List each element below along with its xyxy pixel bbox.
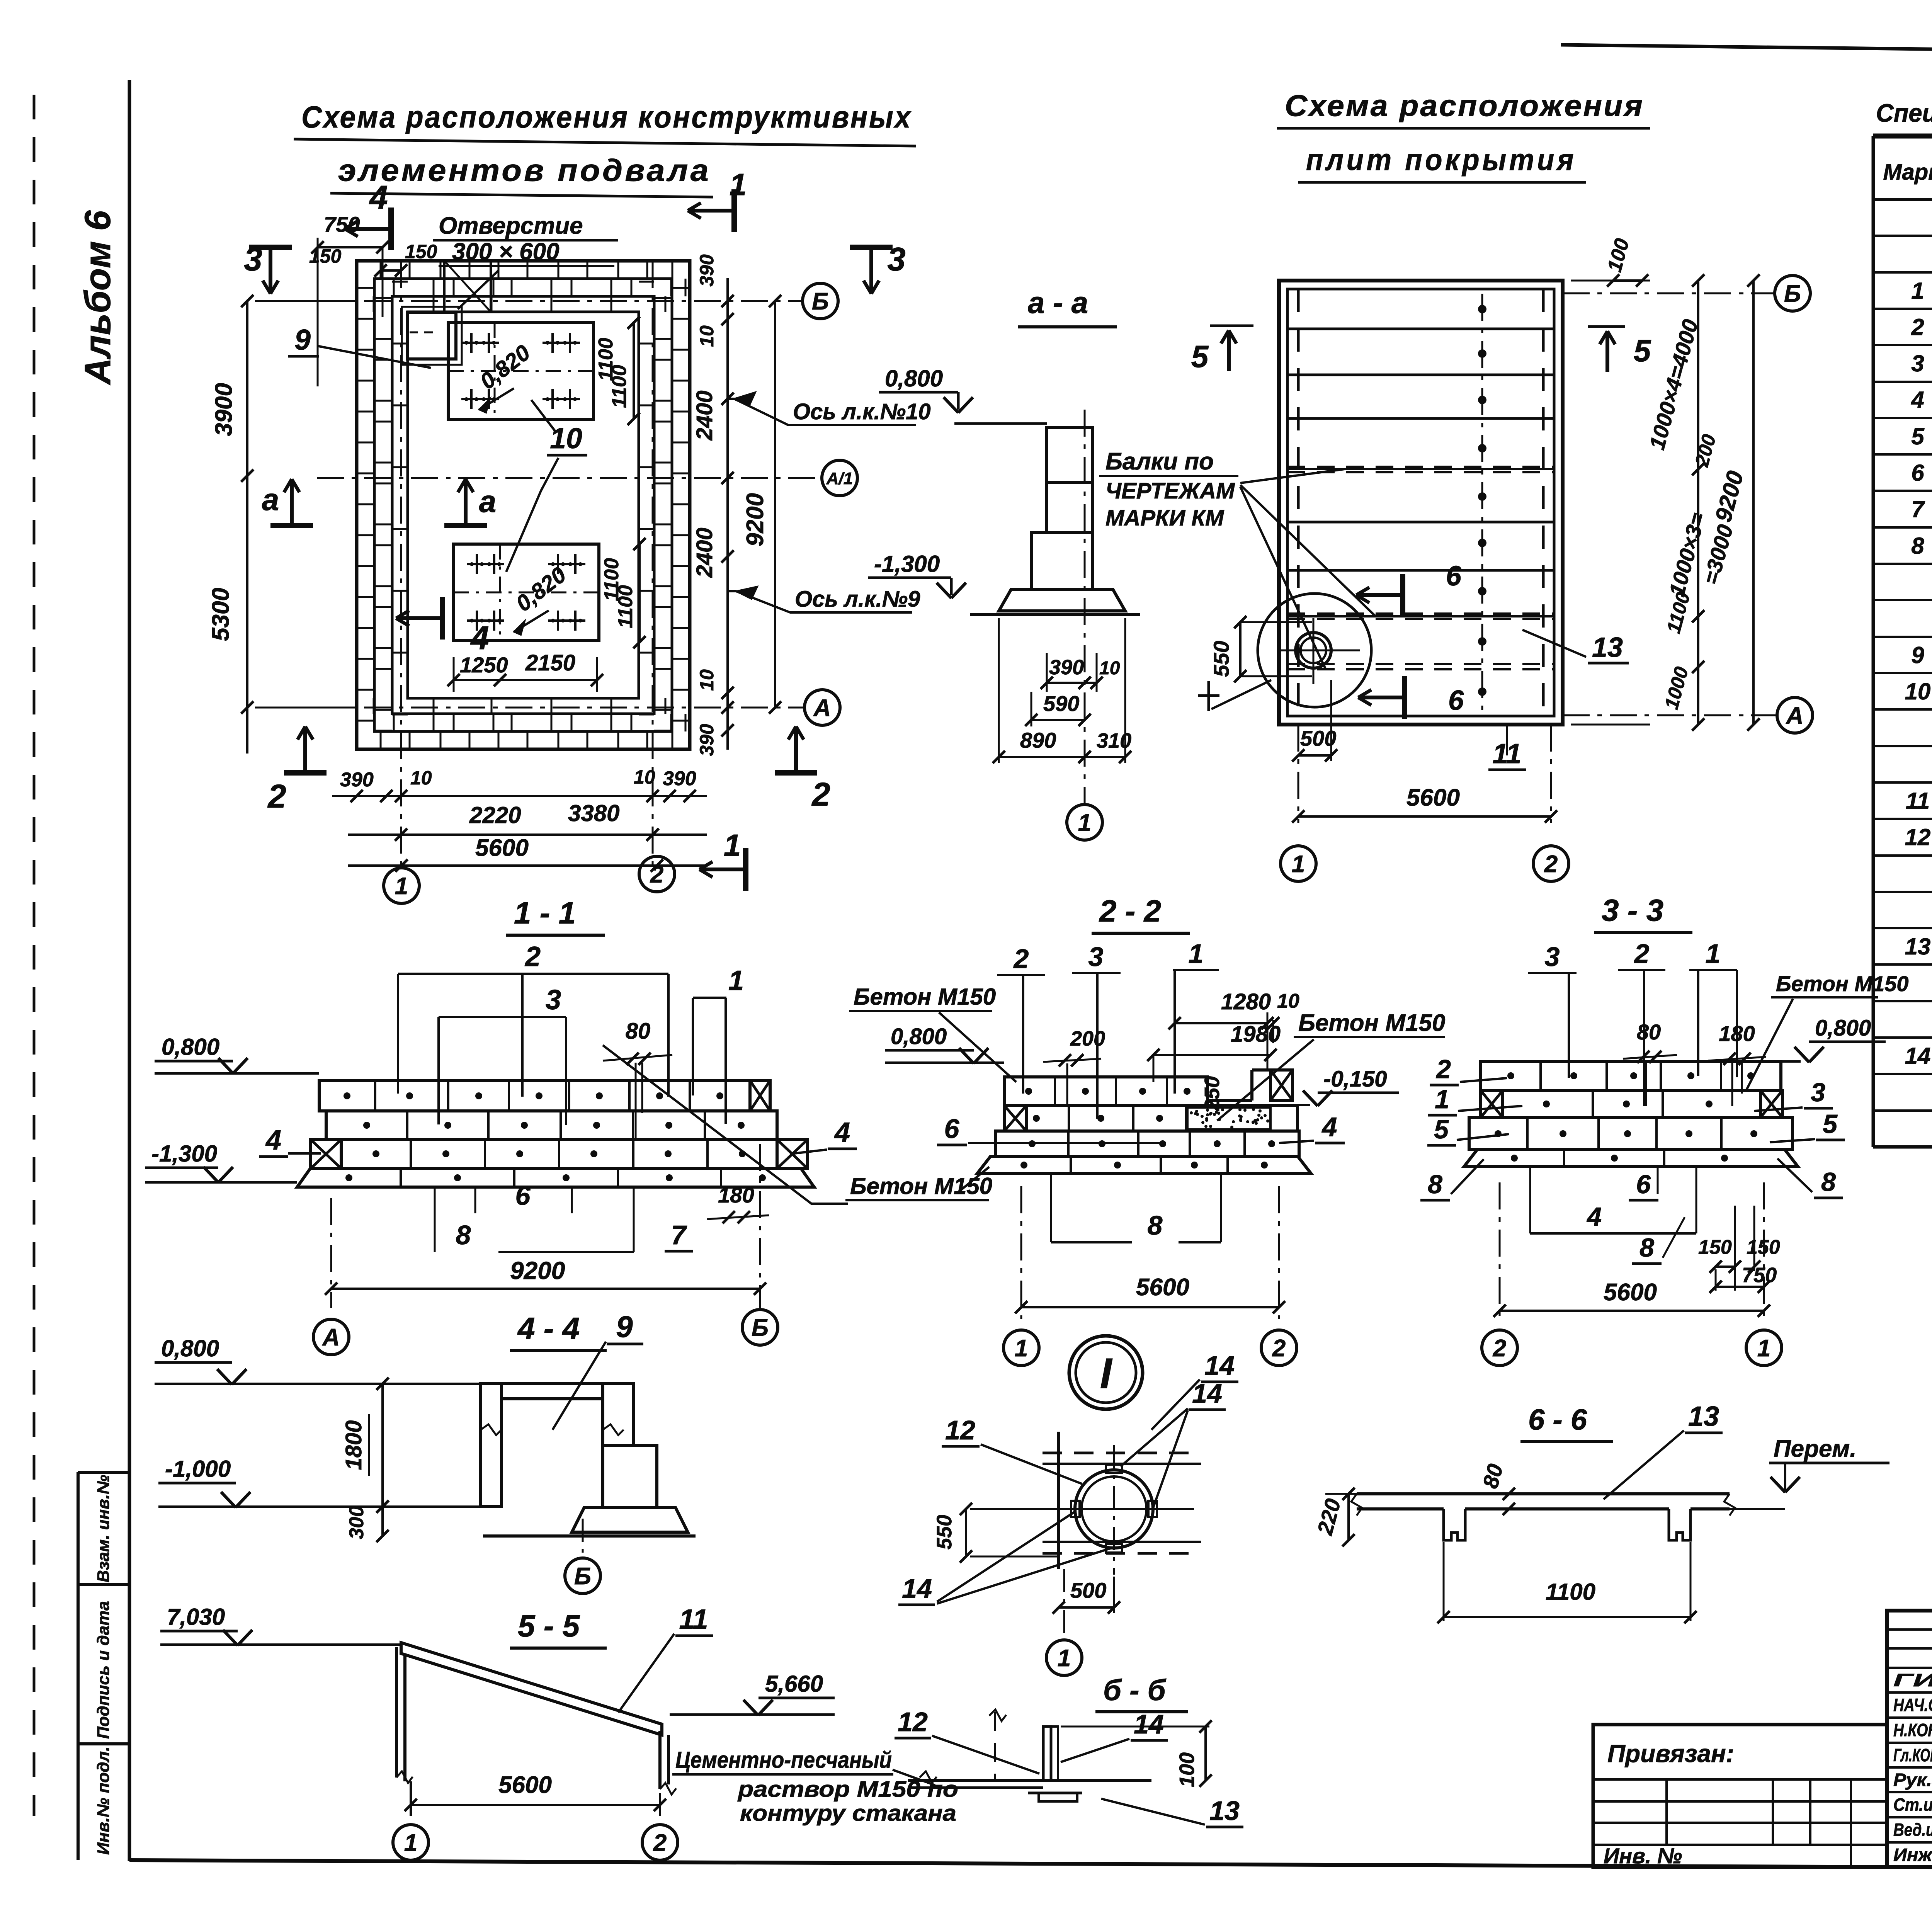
svg-text:-1,000: -1,000 — [165, 1456, 231, 1482]
svg-text:НАЧ.ОТД: НАЧ.ОТД — [1893, 1695, 1932, 1715]
svg-text:Н.КОНТР.: Н.КОНТР. — [1893, 1720, 1932, 1740]
1-1 crossed end top right — [750, 1080, 770, 1111]
3-3 slab — [1464, 1150, 1798, 1167]
svg-text:Альбом 6: Альбом 6 — [77, 210, 118, 385]
svg-text:220: 220 — [1312, 1496, 1345, 1538]
svg-text:0,800: 0,800 — [885, 366, 943, 391]
plan axes dash-dot — [317, 300, 802, 302]
svg-text:1: 1 — [395, 873, 408, 900]
svg-text:1: 1 — [1189, 939, 1204, 969]
2-2 dim 5600 — [1020, 1186, 1022, 1319]
svg-text:0,800: 0,800 — [161, 1335, 219, 1361]
svg-text:Схема расположения конструктив: Схема расположения конструктивных — [301, 100, 912, 134]
svg-text:Ст.инж.: Ст.инж. — [1893, 1795, 1932, 1815]
svg-text:6: 6 — [1636, 1170, 1651, 1199]
plan right dims — [1571, 280, 1650, 282]
1-1 course 3 — [341, 1140, 777, 1169]
svg-text:5: 5 — [1434, 1115, 1449, 1144]
svg-text:3380: 3380 — [568, 800, 619, 826]
a-a dims — [1047, 682, 1085, 684]
svg-text:590: 590 — [1043, 691, 1079, 716]
svg-text:13: 13 — [1209, 1796, 1240, 1826]
svg-text:100: 100 — [1603, 236, 1633, 274]
svg-text:390: 390 — [663, 767, 696, 790]
uzel axis 1 — [1046, 1640, 1082, 1675]
uzel dim 550 — [965, 1509, 967, 1556]
svg-text:Бетон М150: Бетон М150 — [850, 1173, 992, 1199]
svg-text:1000×3=: 1000×3= — [1664, 510, 1710, 599]
svg-text:Спецификация ксхемам расположе: Спецификация ксхемам расположения констр… — [1876, 99, 1932, 127]
svg-text:550: 550 — [933, 1515, 956, 1550]
svg-text:Инжен.: Инжен. — [1893, 1845, 1932, 1865]
2-2 top course with pit recess — [1004, 1077, 1207, 1106]
svg-text:6: 6 — [1446, 561, 1462, 592]
svg-text:2: 2 — [267, 778, 286, 815]
svg-text:1: 1 — [1078, 810, 1091, 836]
plit plan outline — [1279, 281, 1563, 725]
svg-text:Балки по: Балки по — [1105, 448, 1214, 475]
2-2 slab — [977, 1157, 1311, 1174]
svg-text:4: 4 — [265, 1125, 281, 1156]
svg-text:5600: 5600 — [475, 835, 529, 861]
svg-text:Б: Б — [812, 288, 829, 315]
svg-text:200: 200 — [1690, 432, 1720, 469]
svg-text:МАРКИ КМ: МАРКИ КМ — [1105, 505, 1225, 531]
foundation plate 10 upper — [448, 323, 594, 419]
svg-text:3: 3 — [1088, 942, 1104, 972]
svg-text:4: 4 — [834, 1117, 850, 1148]
svg-text:390: 390 — [340, 769, 374, 791]
svg-text:-1,300: -1,300 — [874, 551, 940, 577]
2-2 concrete fill dotted — [1187, 1107, 1270, 1129]
svg-text:1: 1 — [724, 828, 741, 862]
svg-text:5600: 5600 — [1604, 1279, 1657, 1306]
4-4 break marks — [481, 1424, 502, 1435]
svg-text:Подпись и дата: Подпись и дата — [94, 1601, 113, 1739]
svg-text:-1,300: -1,300 — [151, 1141, 217, 1167]
wall block joints — [380, 261, 382, 279]
inner plate dims 1250 2150 — [453, 657, 455, 692]
svg-text:2150: 2150 — [525, 650, 575, 675]
svg-text:550: 550 — [1209, 641, 1233, 677]
4-4 axis B — [582, 1519, 584, 1557]
svg-text:1: 1 — [1292, 851, 1305, 878]
3-3 course 2 with crossed ends — [1503, 1090, 1760, 1118]
svg-text:150: 150 — [309, 245, 342, 267]
4-4 pit walls — [481, 1384, 502, 1507]
svg-text:14: 14 — [1905, 1043, 1931, 1069]
svg-text:390: 390 — [1049, 656, 1084, 679]
svg-text:2: 2 — [1493, 1335, 1506, 1362]
svg-text:14: 14 — [1204, 1351, 1235, 1381]
svg-text:ГИП: ГИП — [1893, 1670, 1932, 1690]
svg-text:5,660: 5,660 — [765, 1671, 823, 1697]
svg-text:а: а — [479, 484, 497, 519]
svg-text:0,820: 0,820 — [511, 562, 571, 617]
center dots column — [1481, 294, 1483, 715]
svg-text:12: 12 — [945, 1415, 975, 1445]
svg-text:6 - 6: 6 - 6 — [1528, 1403, 1587, 1436]
5-5 roof slab — [401, 1643, 662, 1735]
privyazan box — [1593, 1725, 1887, 1867]
a-a column — [1047, 428, 1092, 483]
plate 10 lower — [454, 544, 599, 641]
svg-text:10: 10 — [1099, 658, 1120, 679]
svg-text:2: 2 — [1911, 314, 1924, 340]
svg-text:2: 2 — [1013, 944, 1029, 974]
svg-text:5300: 5300 — [207, 588, 234, 641]
svg-text:3 - 3: 3 - 3 — [1602, 893, 1663, 927]
svg-text:7: 7 — [671, 1220, 687, 1250]
svg-text:А: А — [1786, 703, 1804, 729]
1-1 crossed ends course3 — [311, 1140, 341, 1169]
svg-text:2: 2 — [524, 941, 541, 972]
svg-text:2400: 2400 — [692, 527, 717, 578]
svg-text:390: 390 — [696, 254, 718, 287]
svg-text:плит покрытия: плит покрытия — [1306, 143, 1577, 177]
svg-text:2400: 2400 — [692, 390, 717, 441]
svg-text:1100: 1100 — [1663, 590, 1694, 636]
svg-text:6: 6 — [515, 1180, 531, 1211]
a-a axis circle 1 — [1067, 805, 1102, 840]
svg-text:2220: 2220 — [469, 802, 521, 828]
svg-text:1000: 1000 — [1660, 664, 1692, 711]
svg-text:3: 3 — [546, 985, 561, 1015]
svg-text:8: 8 — [1639, 1233, 1654, 1262]
svg-text:8: 8 — [1428, 1170, 1442, 1199]
svg-text:10: 10 — [696, 325, 718, 347]
svg-text:а - а: а - а — [1028, 286, 1088, 320]
svg-text:1000×4=4000: 1000×4=4000 — [1645, 317, 1702, 452]
svg-text:А: А — [813, 695, 831, 721]
svg-text:6: 6 — [1448, 685, 1464, 716]
svg-text:10: 10 — [696, 669, 718, 691]
svg-text:10: 10 — [410, 767, 432, 789]
2-2 crossed box left — [1004, 1106, 1026, 1131]
6-6 beam section — [1357, 1492, 1730, 1495]
svg-text:2: 2 — [1634, 939, 1650, 969]
svg-text:Взам. инв.№: Взам. инв.№ — [94, 1475, 113, 1582]
3-3 course 3 — [1469, 1118, 1793, 1150]
svg-text:3: 3 — [1545, 942, 1560, 972]
svg-text:б - б: б - б — [1103, 1674, 1167, 1707]
5-5 dim 5600 — [410, 1781, 412, 1816]
svg-text:Бетон М150: Бетон М150 — [1298, 1010, 1445, 1036]
svg-text:9200: 9200 — [1710, 468, 1748, 525]
svg-text:10: 10 — [1905, 679, 1931, 704]
svg-text:ЧЕРТЕЖАМ: ЧЕРТЕЖАМ — [1105, 478, 1235, 503]
svg-text:Гл.КОНСТ.: Гл.КОНСТ. — [1893, 1745, 1932, 1765]
1-1 course 2 — [326, 1111, 777, 1140]
svg-text:Б: Б — [752, 1315, 769, 1341]
svg-text:контуру стакана: контуру стакана — [740, 1801, 956, 1826]
svg-text:9200: 9200 — [510, 1257, 565, 1284]
svg-text:2 - 2: 2 - 2 — [1099, 894, 1161, 928]
svg-text:3: 3 — [1811, 1078, 1825, 1107]
svg-text:А: А — [322, 1324, 340, 1351]
svg-text:Вед.инж.: Вед.инж. — [1893, 1820, 1932, 1840]
svg-text:1100: 1100 — [608, 365, 631, 408]
uzel I circle — [1069, 1336, 1143, 1409]
svg-text:8: 8 — [1821, 1167, 1836, 1197]
svg-text:8: 8 — [1911, 533, 1924, 559]
6-6 dim 1100 — [1444, 1616, 1690, 1618]
svg-text:4: 4 — [369, 179, 388, 216]
left dims 3900 5300 — [246, 301, 248, 754]
svg-text:8: 8 — [456, 1220, 471, 1250]
svg-text:Бетон М150: Бетон М150 — [1776, 971, 1909, 996]
2-2 course 2 — [1004, 1106, 1298, 1131]
svg-text:Инв.№ подл.: Инв.№ подл. — [94, 1747, 113, 1855]
svg-text:Отверстие: Отверстие — [439, 213, 583, 239]
svg-text:I: I — [1100, 1350, 1113, 1397]
svg-text:7,030: 7,030 — [167, 1604, 225, 1630]
svg-text:5: 5 — [1191, 339, 1209, 374]
svg-text:13: 13 — [1688, 1401, 1719, 1432]
svg-text:7: 7 — [1911, 496, 1925, 522]
svg-text:Привязан:: Привязан: — [1607, 1740, 1734, 1767]
a-a cut marks — [270, 523, 313, 528]
svg-text:1280: 1280 — [1221, 989, 1271, 1014]
svg-text:11: 11 — [679, 1604, 708, 1635]
section marks around plan — [249, 245, 292, 250]
uzel I center lines — [1039, 1508, 1194, 1510]
svg-text:10: 10 — [550, 422, 582, 454]
svg-text:6: 6 — [944, 1114, 960, 1144]
plank joint lines — [1287, 328, 1554, 330]
uzel I connector plates — [1106, 1465, 1122, 1473]
svg-text:14: 14 — [1134, 1709, 1164, 1739]
svg-text:100: 100 — [1175, 1752, 1199, 1787]
axis circles — [803, 283, 838, 319]
svg-text:элементов подвала: элементов подвала — [338, 153, 711, 187]
svg-text:1: 1 — [1911, 278, 1924, 304]
svg-text:Схема расположения: Схема расположения — [1285, 88, 1644, 122]
svg-text:а: а — [262, 482, 279, 517]
svg-text:Бетон М150: Бетон М150 — [854, 984, 996, 1010]
svg-text:300 × 600: 300 × 600 — [452, 238, 560, 265]
svg-text:5600: 5600 — [498, 1772, 552, 1798]
svg-text:1 - 1: 1 - 1 — [514, 896, 576, 930]
svg-text:-0,150: -0,150 — [1323, 1067, 1387, 1092]
monolithic strips dashed — [1287, 466, 1554, 468]
svg-text:1: 1 — [730, 167, 747, 202]
b-b drawing — [908, 1779, 1151, 1782]
bottom dims of plan — [332, 795, 707, 797]
plit axis circles — [1775, 276, 1810, 311]
svg-text:6: 6 — [1911, 460, 1924, 486]
stakan circle detail — [1258, 594, 1371, 707]
svg-text:1: 1 — [1015, 1335, 1028, 1362]
svg-text:310: 310 — [1097, 729, 1131, 752]
svg-text:4: 4 — [1321, 1112, 1337, 1142]
5600 bottom dim — [1298, 725, 1299, 823]
pit (priyamok) item 9 at inner corner — [408, 313, 456, 359]
svg-text:3: 3 — [887, 241, 905, 278]
svg-text:13: 13 — [1905, 934, 1931, 959]
title block staff table — [1887, 1611, 1932, 1867]
svg-text:1: 1 — [728, 965, 744, 996]
svg-text:5600: 5600 — [1406, 784, 1460, 811]
svg-text:2: 2 — [1435, 1055, 1451, 1084]
svg-text:3900: 3900 — [211, 383, 237, 436]
svg-text:80: 80 — [1478, 1461, 1508, 1491]
svg-text:0,820: 0,820 — [475, 340, 535, 395]
svg-text:8: 8 — [1148, 1210, 1163, 1240]
uzel dim 500 — [1059, 1606, 1114, 1609]
svg-text:5: 5 — [1634, 333, 1651, 368]
svg-text:5 - 5: 5 - 5 — [518, 1609, 580, 1643]
svg-text:200: 200 — [1070, 1027, 1105, 1050]
section 6 marks — [1400, 574, 1405, 616]
svg-text:3: 3 — [244, 241, 262, 278]
svg-text:180: 180 — [718, 1183, 754, 1207]
svg-text:80: 80 — [626, 1019, 651, 1044]
svg-text:150: 150 — [405, 241, 437, 262]
svg-text:5600: 5600 — [1136, 1274, 1189, 1301]
svg-text:Б: Б — [1784, 281, 1801, 307]
1-1 beton leader — [603, 1045, 848, 1204]
3-3 course 1 — [1481, 1061, 1781, 1090]
svg-text:5: 5 — [1911, 424, 1925, 449]
svg-text:150: 150 — [1698, 1236, 1732, 1259]
opening 300x600 in top wall — [444, 261, 491, 312]
2-2 crossed box right top — [1270, 1070, 1293, 1101]
svg-text:12: 12 — [1905, 824, 1931, 850]
uzel I detail plan — [1057, 1432, 1060, 1569]
5-5 posts — [395, 1647, 398, 1778]
1-1 dim 9200 — [330, 1198, 332, 1308]
svg-text:А/1: А/1 — [826, 469, 853, 488]
svg-text:4 - 4: 4 - 4 — [517, 1311, 580, 1345]
section 5 marks — [1210, 325, 1253, 327]
svg-text:11: 11 — [1906, 788, 1930, 814]
svg-text:Инв. №: Инв. № — [1604, 1844, 1682, 1868]
svg-text:1: 1 — [1757, 1335, 1770, 1362]
svg-text:14: 14 — [1192, 1378, 1222, 1408]
svg-text:9: 9 — [294, 323, 311, 356]
a-a level line 0,800 — [954, 422, 1047, 425]
svg-text:0,800: 0,800 — [1815, 1015, 1871, 1041]
spec table grid — [1873, 134, 1932, 139]
4-4 dim 1800 300 — [381, 1384, 384, 1507]
500 dim — [1298, 754, 1331, 757]
svg-text:Марка: Марка — [1883, 160, 1932, 185]
svg-text:Перем.: Перем. — [1774, 1436, 1857, 1462]
svg-text:2: 2 — [653, 1830, 667, 1856]
svg-text:390: 390 — [696, 724, 718, 756]
svg-text:9: 9 — [1911, 642, 1924, 668]
svg-text:0,800: 0,800 — [162, 1034, 219, 1060]
basement plan walls — [357, 261, 690, 749]
svg-text:9: 9 — [616, 1310, 633, 1344]
svg-text:500: 500 — [1070, 1578, 1106, 1602]
svg-text:1800: 1800 — [341, 1420, 366, 1470]
svg-text:5: 5 — [1823, 1109, 1838, 1139]
svg-text:1: 1 — [404, 1830, 417, 1856]
svg-text:Б: Б — [574, 1563, 591, 1590]
svg-text:Ось л.к.№10: Ось л.к.№10 — [793, 399, 931, 424]
svg-text:180: 180 — [1719, 1021, 1755, 1046]
svg-text:2: 2 — [1272, 1335, 1286, 1362]
svg-text:80: 80 — [1637, 1020, 1661, 1044]
left margin stamp boxes — [77, 1472, 80, 1860]
svg-text:890: 890 — [1020, 728, 1056, 752]
svg-text:13: 13 — [1592, 632, 1623, 663]
svg-text:1: 1 — [1435, 1085, 1449, 1114]
svg-text:4: 4 — [1586, 1202, 1602, 1232]
svg-text:4: 4 — [1911, 387, 1924, 413]
svg-text:1: 1 — [1706, 939, 1721, 969]
svg-text:Рук.гр.: Рук.гр. — [1893, 1770, 1932, 1790]
right dims of plan — [726, 278, 729, 750]
svg-text:1: 1 — [1058, 1645, 1071, 1672]
svg-text:300: 300 — [345, 1506, 368, 1539]
svg-text:4: 4 — [470, 620, 489, 657]
svg-text:2: 2 — [1544, 851, 1558, 878]
sheet frame — [1561, 45, 1932, 59]
svg-text:1100: 1100 — [1546, 1579, 1595, 1605]
side dashed lines — [1297, 289, 1300, 716]
svg-text:Ось л.к.№9: Ось л.к.№9 — [795, 587, 920, 612]
2-2 course 3 — [996, 1131, 1299, 1157]
svg-text:10: 10 — [634, 766, 655, 788]
1-1 masonry top course — [319, 1080, 750, 1111]
svg-text:14: 14 — [902, 1573, 932, 1604]
svg-text:1100: 1100 — [614, 585, 637, 628]
svg-text:12: 12 — [898, 1707, 928, 1737]
svg-text:250: 250 — [1201, 1076, 1224, 1111]
svg-text:10: 10 — [1277, 990, 1299, 1012]
svg-text:Цементно-песчаный: Цементно-песчаный — [675, 1747, 892, 1773]
3-3 dim 5600 — [1499, 1182, 1501, 1319]
svg-text:3: 3 — [1911, 350, 1924, 376]
svg-text:750: 750 — [1742, 1264, 1777, 1287]
lower-left 1 mark — [1207, 681, 1210, 711]
svg-text:2: 2 — [811, 776, 830, 813]
svg-text:9200: 9200 — [742, 493, 769, 546]
1-1 foundation slab — [297, 1169, 814, 1187]
svg-text:0,800: 0,800 — [891, 1024, 947, 1049]
